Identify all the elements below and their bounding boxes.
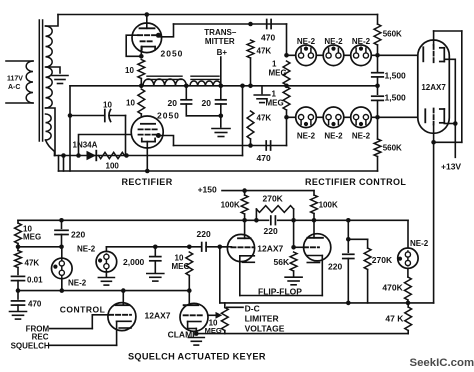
- svg-text:NE-2: NE-2: [297, 132, 316, 141]
- svg-text:2,000: 2,000: [123, 257, 145, 267]
- svg-text:MEG: MEG: [172, 262, 190, 271]
- svg-text:470K: 470K: [382, 283, 403, 293]
- svg-text:+13V: +13V: [441, 162, 461, 172]
- svg-text:1N34A: 1N34A: [73, 141, 98, 150]
- svg-text:0.01: 0.01: [27, 276, 43, 285]
- svg-text:REC: REC: [32, 333, 49, 342]
- svg-text:2050: 2050: [157, 111, 180, 121]
- svg-text:12AX7: 12AX7: [145, 310, 171, 320]
- svg-text:20: 20: [202, 98, 212, 108]
- svg-text:100K: 100K: [221, 201, 240, 210]
- svg-text:12AX7: 12AX7: [257, 243, 283, 253]
- svg-text:10: 10: [125, 66, 134, 75]
- svg-text:NE-2: NE-2: [68, 279, 87, 288]
- svg-text:470: 470: [28, 300, 42, 309]
- svg-text:MEG: MEG: [269, 69, 287, 78]
- svg-text:VOLTAGE: VOLTAGE: [245, 324, 285, 334]
- svg-text:47K: 47K: [257, 114, 272, 123]
- svg-text:D-C: D-C: [245, 304, 260, 314]
- svg-text:NE-2: NE-2: [324, 132, 343, 141]
- svg-text:560K: 560K: [383, 144, 402, 153]
- svg-text:B+: B+: [217, 48, 228, 57]
- svg-text:117V: 117V: [7, 76, 23, 83]
- svg-text:220: 220: [197, 229, 211, 239]
- svg-text:SQUELCH: SQUELCH: [11, 342, 50, 351]
- svg-text:220: 220: [328, 262, 342, 272]
- svg-text:MEG: MEG: [205, 326, 222, 335]
- svg-text:NE-2: NE-2: [410, 239, 429, 248]
- svg-text:NE-2: NE-2: [352, 37, 371, 46]
- svg-text:+150: +150: [198, 185, 217, 195]
- svg-text:220: 220: [71, 230, 85, 240]
- svg-text:270K: 270K: [372, 255, 393, 265]
- svg-text:TRANS–: TRANS–: [204, 28, 237, 37]
- svg-text:LIMITER: LIMITER: [245, 314, 279, 324]
- svg-text:10: 10: [126, 99, 135, 108]
- svg-text:100K: 100K: [319, 201, 338, 210]
- svg-text:12AX7: 12AX7: [421, 83, 446, 92]
- svg-text:1,500: 1,500: [385, 71, 407, 81]
- svg-text:CLAMP: CLAMP: [168, 329, 199, 339]
- svg-text:470: 470: [261, 33, 275, 43]
- svg-text:SeekIC.com: SeekIC.com: [410, 357, 474, 369]
- svg-text:NE-2: NE-2: [352, 132, 371, 141]
- svg-text:1,500: 1,500: [385, 93, 407, 103]
- svg-text:RECTIFIER: RECTIFIER: [122, 177, 173, 187]
- svg-text:2050: 2050: [161, 49, 184, 59]
- svg-text:560K: 560K: [383, 30, 402, 39]
- svg-text:470: 470: [257, 153, 271, 163]
- svg-text:20: 20: [168, 98, 178, 108]
- svg-text:47K: 47K: [25, 259, 40, 268]
- svg-text:10: 10: [103, 101, 112, 110]
- svg-text:CONTROL: CONTROL: [60, 304, 106, 314]
- svg-text:100: 100: [106, 162, 120, 171]
- svg-text:A-C: A-C: [8, 84, 20, 91]
- svg-text:MEG: MEG: [23, 233, 41, 242]
- svg-text:270K: 270K: [263, 194, 284, 204]
- svg-text:NE-2: NE-2: [77, 245, 96, 254]
- svg-text:47 K: 47 K: [385, 314, 404, 324]
- svg-text:RECTIFIER CONTROL: RECTIFIER CONTROL: [305, 177, 406, 187]
- svg-text:NE-2: NE-2: [297, 37, 316, 46]
- svg-text:FLIP-FLOP: FLIP-FLOP: [258, 286, 302, 296]
- svg-text:1: 1: [272, 90, 277, 99]
- svg-text:1: 1: [272, 60, 277, 69]
- svg-text:56K: 56K: [274, 257, 290, 267]
- svg-text:SQUELCH ACTUATED KEYER: SQUELCH ACTUATED KEYER: [128, 352, 266, 362]
- svg-text:47K: 47K: [257, 47, 272, 56]
- svg-text:MITTER: MITTER: [205, 37, 235, 46]
- svg-text:MEG: MEG: [266, 99, 284, 108]
- svg-text:NE-2: NE-2: [324, 37, 343, 46]
- svg-text:220: 220: [264, 226, 278, 236]
